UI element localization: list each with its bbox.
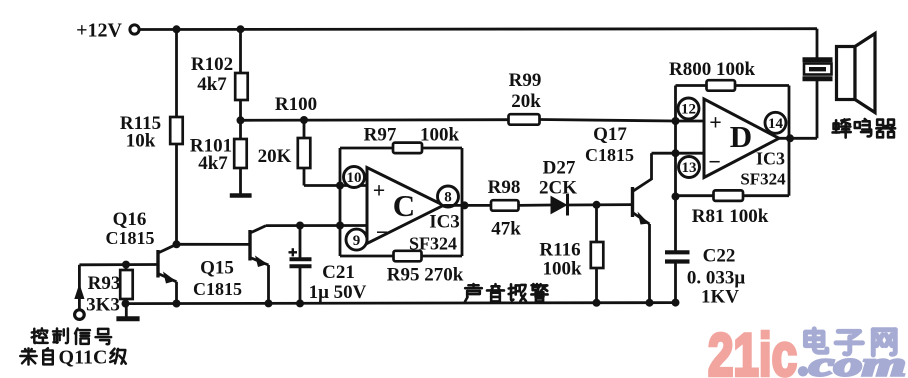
junction rail / C21 [296,299,304,307]
svg-text:47k: 47k [491,219,521,240]
junction op-amp C plus input node [336,182,344,190]
resistor R81 (on box bottom edge) [714,190,744,201]
junction rail / Q16 emitter [173,300,181,308]
wire +12V to R115 [175,29,178,117]
wire piezo to top rail [816,29,819,58]
wire R101 node to R99 [241,118,509,121]
wire to C21 [299,226,302,259]
wire Q16 collector to Q15 base [177,243,249,246]
svg-text:D: D [730,119,752,154]
svg-text:R116: R116 [539,240,580,261]
junction C21 top [296,222,304,230]
wire C22 to ground rail [674,262,677,304]
svg-text:Q15: Q15 [200,258,234,279]
svg-text:0. 033μ: 0. 033μ [687,268,746,289]
svg-text:3K3: 3K3 [86,295,120,316]
svg-text:8: 8 [444,190,452,206]
svg-text:+: + [373,178,386,203]
watermark 电子网 [805,329,826,352]
resistor R800 (on box top edge) [707,80,736,91]
svg-text:1KV: 1KV [701,287,739,308]
svg-text:+12V: +12V [76,20,122,42]
label 蜂鸣器 (buzzer) [833,119,851,137]
junction output / box right edge [461,201,469,209]
resistor R93 [125,265,128,270]
svg-text:14: 14 [768,116,784,132]
svg-text:10: 10 [347,170,362,186]
wire R116 to ground rail [595,268,598,303]
op-amp U-D box outline [674,86,677,196]
svg-text:IC3: IC3 [429,212,460,233]
wire op-amp C output [444,204,492,207]
resistor R116 [591,242,604,268]
pin 14 [765,112,786,133]
svg-text:Q11C: Q11C [59,347,108,369]
svg-text:D27: D27 [543,158,576,179]
resistor R115 [170,117,183,144]
svg-text:Q17: Q17 [593,124,627,145]
svg-text:2CK: 2CK [539,178,577,199]
svg-text:SF324: SF324 [740,170,786,189]
svg-text:com: com [809,347,906,378]
pin 13 [679,157,700,178]
op-amp U1D triangle [704,99,779,178]
wire op-amp D output [779,137,817,140]
svg-text:C1815: C1815 [106,228,155,248]
speaker horn [837,47,856,100]
junction op-amp C minus input node [336,222,344,230]
resistor R101 [239,120,242,139]
junction R81 / C22 node [672,193,680,201]
wire C21 to rail [299,266,302,303]
svg-text:R98: R98 [488,177,521,198]
wire output to piezo column [816,81,819,138]
wire R93 to rail [125,299,128,304]
label 控制信号 (control signal) [32,328,48,343]
ground below R93 [125,304,128,318]
svg-text:21ic: 21ic [708,322,797,378]
resistor R102 [235,73,248,100]
junction top rail / R115 [173,25,181,33]
resistor R97 (feedback, on box top edge) [393,143,422,154]
svg-text:100k: 100k [542,259,582,280]
wire +12V to R102 [239,29,242,73]
Q15 collector [250,226,266,233]
resistor R95 (feedback, on box bottom edge) [394,251,422,261]
junction rail / Q17 emitter [646,299,654,307]
wire bottom rail [126,303,676,304]
input terminal [75,310,85,320]
wire R115 to Q16 collector node [175,144,178,244]
svg-text:4k7: 4k7 [198,153,228,174]
Q16 collector [158,244,177,253]
svg-text:SF324: SF324 [409,234,457,254]
wire input to Q16 base [79,263,157,266]
transistor Q16 base bar [156,250,159,278]
junction output / box right edge [786,134,794,142]
svg-text:C1815: C1815 [193,279,242,299]
op-amp U-C box outline [339,148,342,256]
ground below R101 [230,193,252,198]
svg-text:100k: 100k [420,125,460,146]
pin 8 [438,186,459,207]
junction rail / R116 [593,299,601,307]
capacitor C21 polarity plus [289,251,298,253]
svg-text:R99: R99 [509,70,542,91]
junction R116 top [593,201,601,209]
svg-text:9: 9 [353,233,361,249]
wire node to C22 [674,197,677,252]
svg-text:C1815: C1815 [585,145,634,165]
capacitor C21 [290,257,312,261]
junction op-amp D plus input [672,117,680,125]
wire top +12V rail [140,27,818,31]
junction top rail / R102 [237,25,245,33]
wire Q15 collector to op-amp C minus input [266,224,367,227]
transistor Q15 base bar [248,230,251,261]
svg-text:12: 12 [681,102,696,118]
transistor Q17 base bar [631,187,634,217]
junction rail / R93 [122,300,130,308]
wire plus input into triangle [340,184,367,187]
svg-text:10k: 10k [126,131,156,152]
resistor R99 [509,114,540,125]
svg-text:20K: 20K [258,146,292,167]
svg-text:R100: R100 [275,94,317,115]
resistor R100 20K [298,138,311,168]
pin 10 [344,167,365,188]
svg-text:IC3: IC3 [756,149,785,169]
svg-text:R102: R102 [191,54,233,75]
Q17 emitter with arrow [633,213,650,225]
Q15 emitter with arrow [250,258,269,266]
wire node to R116 [595,205,598,242]
signal arrow up [74,284,84,300]
label 声音报警 (sound alarm) [465,284,482,301]
svg-text:20k: 20k [511,91,541,112]
svg-text:−: − [708,149,721,174]
wire R98 to D27 [519,204,552,207]
svg-text:1μ 50V: 1μ 50V [309,282,367,303]
svg-text:C: C [393,188,415,223]
svg-text:Q16: Q16 [113,209,147,230]
junction R102/R101 node [237,116,245,124]
svg-text:R93: R93 [88,273,121,294]
svg-text:C21: C21 [322,262,355,283]
junction rail / Q15 emitter [265,299,273,307]
diode D27 2CK [551,197,567,214]
svg-text:R800 100k: R800 100k [669,59,755,80]
op-amp U1C triangle [367,168,444,244]
svg-text:R95 270k: R95 270k [387,265,464,286]
svg-text:R97: R97 [364,125,397,146]
wire bus to R100 [303,120,306,138]
svg-text:C22: C22 [703,246,736,267]
junction bus / R100 [300,116,308,124]
svg-text:+: + [709,110,722,135]
node +12V supply terminal [130,25,139,34]
svg-text:4k7: 4k7 [197,74,227,95]
pin 12 [678,98,699,119]
capacitor C22 [665,250,690,254]
svg-text:13: 13 [682,160,697,176]
junction rail / C22 [672,299,680,307]
junction R93 top [122,261,130,269]
wire R99 to op-amp D plus input [540,120,676,122]
pin 9 [346,229,367,250]
junction Q16 collector node [173,240,181,248]
wire input rising [78,265,81,310]
Q17 collector [633,179,652,192]
wire R101 to ground [239,168,242,194]
wire D27 to Q17 base [568,203,632,206]
piezo sounder element [803,76,833,81]
Q16 emitter with arrow [158,274,177,282]
label 来自 (from) [20,348,36,364]
resistor R98 [491,200,519,211]
label 级 (stage) [110,349,126,364]
wire R102 to node [239,100,242,120]
junction op-amp D minus input [672,149,680,157]
svg-text:R81 100k: R81 100k [692,206,769,227]
watermark dot [798,366,808,376]
wire R100 to op-amp C plus node [303,168,306,186]
svg-text:−: − [376,220,389,245]
